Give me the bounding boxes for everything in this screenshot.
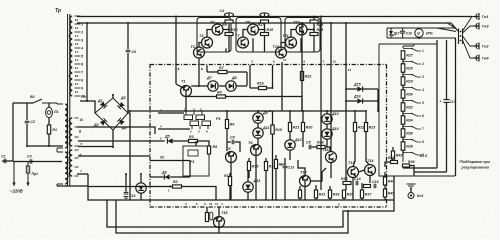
wire R31 down <box>315 198 317 200</box>
resistor R32 <box>401 103 405 111</box>
junction <box>354 110 356 112</box>
wire R1 down <box>48 134 50 146</box>
primary tap stubs <box>57 104 63 186</box>
diode D11 <box>253 128 263 138</box>
switch V1 taps <box>403 49 421 52</box>
wire R43 down <box>392 159 394 163</box>
wire C4 top <box>228 13 230 17</box>
wire R44 to R45 <box>384 185 386 189</box>
wire R4 left <box>186 96 217 98</box>
wire row L2 <box>150 160 190 162</box>
junction <box>347 210 349 212</box>
wire R3 to coil <box>195 141 197 146</box>
transformer secondary winding upper <box>69 16 72 96</box>
wire R12 down <box>229 186 231 201</box>
wire T15 down <box>304 186 306 200</box>
wire primary bottom link <box>27 145 63 147</box>
wire C13 down <box>284 169 286 201</box>
junction <box>48 145 50 147</box>
resistor R1 <box>47 125 50 134</box>
wire R22 top <box>354 111 356 123</box>
wire R37 down <box>361 198 363 200</box>
junction <box>86 100 88 102</box>
wire ladder seg R29 <box>402 85 404 90</box>
resistor R39 <box>401 142 405 150</box>
resistor R17 <box>261 20 269 23</box>
junction <box>272 87 274 89</box>
wire mains row <box>13 161 62 163</box>
wire D13 top <box>247 171 249 182</box>
resistor R3 <box>189 139 198 142</box>
resistor R16 <box>259 86 267 89</box>
wires converging to connector <box>437 17 476 59</box>
heatsink box 2 <box>236 18 281 53</box>
secondary tap stubs <box>75 16 81 96</box>
wire R33 down <box>329 198 331 200</box>
wire R37 top <box>361 183 363 190</box>
diode D4 <box>117 118 124 125</box>
capacitor C6 <box>126 50 131 52</box>
terminal bus <box>472 16 476 18</box>
wire R24b top <box>275 155 277 160</box>
junction <box>377 100 379 102</box>
junction <box>26 145 28 147</box>
resistor R25 <box>310 33 318 36</box>
resistor R24b <box>274 160 277 169</box>
wire T15 to T16 <box>310 168 326 181</box>
wire tap row y141 <box>78 140 158 142</box>
wire D15 D16 right down <box>377 89 379 111</box>
wire R23 top <box>365 111 367 123</box>
wire T12 to column <box>307 29 314 31</box>
wire D14 down <box>326 139 328 147</box>
resistor R29 <box>401 77 405 85</box>
resistor R40 <box>364 185 371 188</box>
junction <box>330 22 332 24</box>
wire C10 top <box>264 13 266 17</box>
wire D16 left <box>346 100 357 102</box>
junction <box>377 110 379 112</box>
transistor T13 <box>348 167 359 178</box>
voltmeter IP1 <box>415 29 423 37</box>
wire tap row y174 <box>77 173 88 175</box>
wire R45 down <box>384 197 386 200</box>
transistor T12 <box>296 24 307 35</box>
resistor R20 <box>301 123 304 132</box>
wire bus B slant to connector <box>451 23 458 31</box>
wire T13 to T14 <box>358 170 365 172</box>
resistor R38 <box>401 129 405 137</box>
resistor R37 <box>360 190 363 198</box>
diode D9 <box>253 113 263 123</box>
wire D12 down <box>289 150 291 160</box>
wire D5 row <box>158 140 165 142</box>
wire C15 top <box>125 174 127 192</box>
wire feeder x282 <box>281 62 283 111</box>
junction <box>345 88 347 90</box>
wire C2 down <box>26 124 28 146</box>
resistor R22 <box>353 123 356 132</box>
wire R41 left <box>385 162 391 167</box>
resistor R26 <box>317 145 325 148</box>
wire R14 top <box>265 158 267 162</box>
resistor R5 <box>207 146 210 154</box>
resistor R36 <box>343 182 351 185</box>
wire connector down 3 <box>455 38 457 176</box>
transistor T15 <box>300 176 311 187</box>
wire D10 to D14 <box>326 124 328 130</box>
dash-dot enclosure right <box>386 65 388 208</box>
junction <box>112 94 114 96</box>
diode D1 <box>100 101 107 108</box>
junction <box>86 22 88 24</box>
resistor R12 <box>228 177 231 186</box>
wire D18 top <box>140 174 142 183</box>
junction <box>185 96 187 98</box>
capacitor C19 <box>400 28 405 38</box>
junction <box>175 16 177 18</box>
wire bus B <box>77 22 451 24</box>
resistor R27 <box>401 51 405 59</box>
wire D9 to D11 <box>257 123 259 129</box>
transistor T2 <box>194 47 205 58</box>
wire R22 to T13 <box>353 132 355 167</box>
wire D6 right <box>170 176 190 178</box>
wire T1 down <box>185 97 187 112</box>
wire R17 to R18 <box>264 23 266 33</box>
junction <box>345 22 347 24</box>
wire C8 left <box>227 141 231 143</box>
junction <box>264 29 266 31</box>
capacitor C10 <box>260 13 269 17</box>
wire C5 to R26 <box>312 146 318 148</box>
wire R24 top <box>313 17 315 20</box>
wire mains drops <box>14 162 28 173</box>
wire bottom bus y200 <box>57 186 394 200</box>
wire connector down 1 <box>436 40 438 168</box>
junction <box>345 100 347 102</box>
wire pin8 feeder <box>272 65 274 88</box>
bridge rectifier outline <box>95 98 128 130</box>
resistor R33 <box>328 190 331 198</box>
resistor R19 <box>271 125 274 134</box>
transistor T1 <box>181 86 192 97</box>
wire R26 right <box>325 147 330 152</box>
wire feeder to T1 upper <box>175 65 177 84</box>
diode D6 <box>164 174 169 179</box>
capacitor C15 <box>124 192 129 194</box>
resistor R10 <box>225 33 233 36</box>
wire relay row in <box>158 112 184 114</box>
wire R20 top <box>302 111 304 123</box>
resistor R31 <box>314 190 317 198</box>
junction <box>228 29 230 31</box>
wire bridge top stub <box>112 94 114 98</box>
wire R7 row right <box>227 71 247 73</box>
transistor T4 <box>212 24 223 35</box>
terminal Гн4 <box>474 55 479 62</box>
ground mark C15 <box>124 197 129 199</box>
wire lamp to R1 <box>48 118 50 125</box>
resistor R24 <box>310 20 318 23</box>
wire T16 down <box>330 162 332 178</box>
resistor R7 <box>218 70 227 73</box>
capacitor C16 <box>374 184 376 189</box>
wire D15 right <box>363 88 378 90</box>
terminal Kl1 <box>408 193 414 199</box>
wire T2 to T3 <box>199 43 202 48</box>
transistor T5 <box>226 152 237 163</box>
wire R35 down <box>343 198 345 200</box>
wire R6 down to T5 <box>226 129 228 152</box>
wire R21 top <box>289 111 291 123</box>
wire C13 top <box>284 158 286 166</box>
wire R18 down <box>264 36 266 53</box>
wire R7 row left <box>207 71 218 73</box>
wire ladder seg R28 <box>402 72 404 77</box>
wire R7 left stub <box>206 65 208 72</box>
wire R31 top <box>315 185 317 190</box>
junction <box>125 173 127 175</box>
transistor T9 <box>214 217 225 228</box>
zener diode D17 <box>389 31 393 36</box>
capacitor C14 <box>356 181 358 186</box>
resistor R22 <box>300 72 303 81</box>
relay contacts P1 <box>184 111 211 129</box>
diode D18 <box>136 183 146 193</box>
wire R20 down <box>302 132 304 148</box>
terminal Гн3 <box>474 23 479 30</box>
resistor R34 <box>401 116 405 124</box>
wire T10 to T11 <box>281 43 286 48</box>
wire D8 right <box>236 85 247 87</box>
wire R7 to D8 <box>246 72 248 86</box>
wire R24b down <box>275 169 277 201</box>
junction <box>320 16 322 18</box>
transformer secondary winding lower <box>69 150 72 176</box>
wire bottom link 2 <box>414 171 447 173</box>
resistor R30 <box>298 190 301 198</box>
wire C6 stub <box>127 23 129 49</box>
wire feeder to T1 <box>176 84 182 88</box>
fuse Pr1 <box>26 166 29 173</box>
paper noise filter def <box>0 0 1 1</box>
wire T7 to T8 <box>243 30 248 38</box>
voltmeter box <box>387 28 456 38</box>
junction <box>218 226 220 228</box>
transistor T14 <box>365 165 376 176</box>
ladder feed wire <box>403 44 414 48</box>
resistor R23 <box>364 123 367 132</box>
wire R35 top <box>343 189 345 191</box>
wire feeder x346 <box>345 23 347 190</box>
wire R24 to R25 <box>313 23 315 33</box>
wire R16 feeder <box>249 65 251 88</box>
wire T12 emitter <box>300 38 302 52</box>
transformer core <box>68 14 70 186</box>
wire ladder seg R39 <box>402 150 404 155</box>
wire feeder x321 <box>320 17 322 191</box>
transistor T16 <box>326 152 337 163</box>
wire D5 right <box>172 140 188 142</box>
resistor R28 <box>401 64 405 72</box>
terminal Гн1 <box>474 13 479 20</box>
lamp L1 <box>46 107 53 117</box>
resistor R30 <box>401 90 405 98</box>
wire R15 top <box>248 158 250 162</box>
wire T1 to D7 <box>191 85 208 87</box>
junction <box>112 146 114 148</box>
capacitor C5 <box>309 145 311 150</box>
diode D5 <box>167 138 172 143</box>
junction <box>418 37 420 39</box>
wire mid bus <box>128 110 365 112</box>
wire connector down 2 upper <box>446 40 448 100</box>
wire T2 emitter down <box>198 58 200 86</box>
wire ladder seg R27 <box>402 59 404 64</box>
wire R19 down <box>272 134 274 200</box>
dash-dot enclosure top <box>150 64 387 66</box>
resistor R9 <box>225 20 233 23</box>
diode D3 <box>117 102 124 109</box>
wire T11 to T12 <box>291 30 296 38</box>
wire D6 left <box>150 176 164 178</box>
wire bottom loop 2 <box>116 200 348 233</box>
wire T13 down <box>352 177 354 200</box>
wire link rows <box>189 161 191 178</box>
mains arrows 220V <box>14 172 28 184</box>
junction <box>169 186 171 188</box>
wire T14 down <box>369 175 371 183</box>
wire D7 to D8 <box>219 85 226 87</box>
wire R14 down <box>265 171 267 201</box>
wire lamp top <box>48 103 50 107</box>
wire R44 top <box>384 172 386 177</box>
wire bottom loop 1 <box>107 176 394 227</box>
wire R11 top <box>206 207 208 213</box>
transformer primary winding lower <box>65 152 68 184</box>
terminal Гн2 <box>474 43 479 50</box>
wire feeder x331 <box>330 23 332 151</box>
junction <box>313 29 315 31</box>
wire ladder seg R34 <box>402 124 404 129</box>
resistor R45 <box>383 189 386 197</box>
wire top bus A <box>77 16 472 18</box>
lower secondary tap stubs <box>75 118 79 176</box>
wire C8 right <box>235 142 240 152</box>
capacitor C17 <box>444 100 450 103</box>
wire T6 emitter down <box>255 155 257 200</box>
heatsink box 1 <box>197 18 231 53</box>
resistor R43 <box>391 151 394 159</box>
junction <box>198 85 200 87</box>
wire T9 emitter <box>218 227 220 233</box>
wire y174 down <box>87 174 89 186</box>
wire R30 down <box>299 198 301 200</box>
junction <box>365 110 367 112</box>
transistor T8 <box>248 24 259 35</box>
resistor R2 <box>173 185 182 188</box>
wire busB to bridge ac <box>86 23 88 101</box>
wire D13 down <box>247 192 249 200</box>
wire R6 top <box>226 111 228 120</box>
wire bridge dc down <box>128 113 130 200</box>
wire T8 emitter <box>252 38 254 52</box>
wire ladder seg R38 <box>402 137 404 142</box>
resistor R35 <box>342 190 345 198</box>
wire T3 to T4 <box>207 30 212 38</box>
resistor R46 <box>403 164 410 167</box>
diode D15 <box>357 86 362 91</box>
transistor T10 <box>276 47 287 58</box>
wire R25 down <box>313 36 315 53</box>
transistor T7 <box>238 37 249 48</box>
wire R9 to R10 <box>228 23 230 33</box>
wire R2 right <box>182 187 217 201</box>
capacitor C1 <box>4 159 6 164</box>
wire R19 top <box>272 111 274 125</box>
resistor R6 <box>225 120 228 129</box>
capacitor C3 <box>30 159 32 164</box>
wire C1 branch <box>2 160 13 162</box>
diode D8 <box>226 81 236 91</box>
diode D7 <box>208 81 218 91</box>
right section box <box>379 44 455 176</box>
wire tap row to bridge bottom <box>78 146 113 148</box>
wire R10 down <box>228 36 230 53</box>
wire D11 down <box>257 138 259 145</box>
wire T4 to column <box>223 29 229 31</box>
transistor T11 <box>286 37 297 48</box>
wire T5 emitter down <box>230 162 232 200</box>
wire R30 top <box>299 186 301 190</box>
wire C6 down to bridge <box>127 53 129 113</box>
wire switch feed <box>13 102 33 104</box>
heatsink box 3 <box>285 18 320 53</box>
transistor T3 <box>202 37 213 48</box>
wire R21 to D12 <box>289 132 291 141</box>
resistor R4 <box>217 95 226 98</box>
wire tap row y127 <box>77 127 155 134</box>
wire D18 down <box>140 193 142 200</box>
transformer primary winding upper <box>65 104 67 148</box>
resistor R18 <box>261 33 269 36</box>
resistor R15 <box>247 162 250 171</box>
ground symbol <box>407 184 416 188</box>
junction <box>301 22 303 24</box>
wire ground stub <box>410 188 412 192</box>
diode D13 <box>243 182 253 192</box>
wire bridge ac left <box>80 101 95 113</box>
capacitor C2 <box>25 121 30 123</box>
wire D10 top <box>326 111 328 114</box>
diode D2 <box>100 118 107 125</box>
wire tap row y156 <box>78 155 150 157</box>
wire connector down 2 lower <box>446 102 448 172</box>
wire T4 emitter <box>225 48 227 52</box>
wire C2 top <box>26 103 28 120</box>
wire R33 top <box>329 186 331 190</box>
junction dots top buses <box>228 16 230 18</box>
resistor R21 <box>288 123 291 132</box>
wire R2 left <box>88 186 173 188</box>
wire feeder x176 <box>175 17 177 66</box>
switch B1 <box>33 99 57 104</box>
wire T8 to column <box>258 29 264 31</box>
capacitor C4 <box>224 13 233 17</box>
wire ladder seg R32 <box>402 111 404 116</box>
diode D12 <box>285 140 295 150</box>
